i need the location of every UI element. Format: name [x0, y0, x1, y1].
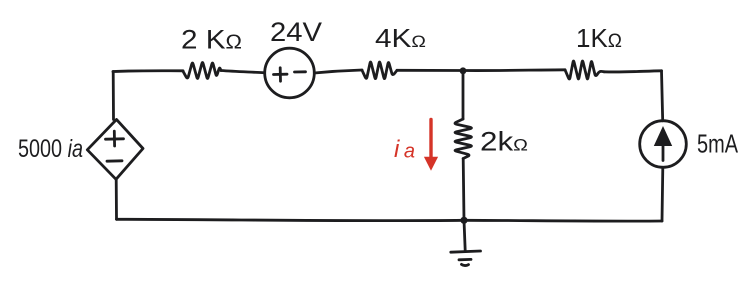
- svg-text:5mA: 5mA: [697, 129, 738, 159]
- svg-text:4KΩ: 4KΩ: [375, 23, 426, 53]
- resistor 1kohm: [565, 61, 604, 79]
- voltage source U1 24V: [265, 48, 315, 98]
- current source I1 5mA: [640, 121, 687, 168]
- wire top-left horizontal: [113, 69, 183, 73]
- svg-text:5000 ia: 5000 ia: [18, 135, 83, 163]
- wire middle resistor down to node B: [462, 159, 466, 221]
- ground symbol: [451, 220, 481, 265]
- node B junction dot (bottom): [460, 217, 467, 224]
- svg-text:ia: ia: [394, 136, 415, 163]
- wire right vertical upper: [662, 71, 663, 121]
- resistor 2kohm middle vertical: [455, 119, 471, 159]
- svg-text:2kΩ: 2kΩ: [480, 127, 528, 157]
- node A junction dot: [460, 67, 467, 74]
- wire from node A to 1k resistor: [463, 68, 565, 72]
- wire node A down to middle resistor: [462, 71, 465, 119]
- wire left vertical upper: [112, 72, 115, 120]
- wire bottom right segment: [464, 219, 662, 223]
- current arrow ia (red): [424, 120, 438, 171]
- wire between 24V source and 4k resistor: [314, 70, 362, 73]
- wire from 4k resistor to node A: [397, 69, 463, 72]
- svg-text:24V: 24V: [270, 17, 322, 47]
- dependent source 5000ia (diamond): [87, 120, 143, 180]
- wire left vertical lower: [115, 179, 118, 219]
- wire between 2k resistor and 24V source: [221, 71, 265, 73]
- svg-text:2 KΩ: 2 KΩ: [181, 25, 242, 55]
- wire bottom left segment: [117, 219, 465, 220]
- wire from 1k resistor to top-right corner: [604, 71, 662, 72]
- resistor 4kohm: [362, 62, 397, 79]
- resistor 2kohm top-left: [183, 63, 221, 79]
- svg-text:1KΩ: 1KΩ: [576, 23, 622, 53]
- wire right vertical lower: [661, 167, 665, 221]
